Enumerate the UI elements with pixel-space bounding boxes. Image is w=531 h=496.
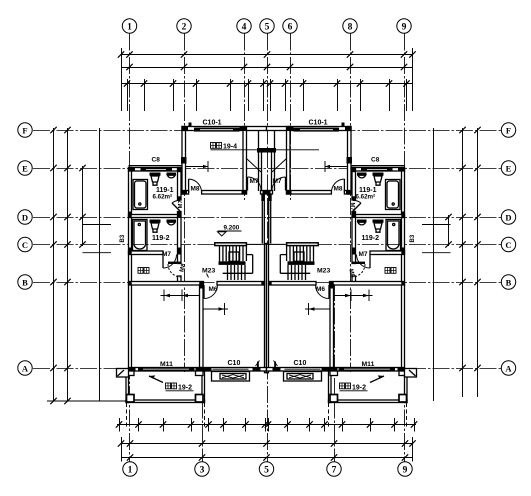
window C10 outer box <box>212 372 250 382</box>
pier corridor top jamb <box>261 194 264 201</box>
svg-text:C8: C8 <box>371 157 380 164</box>
interior dim center room <box>203 308 228 310</box>
wire B wall left segment <box>129 282 204 286</box>
svg-text:9: 9 <box>403 465 408 475</box>
wire bathroom right wall mid <box>178 212 182 264</box>
interior dim center room arrow <box>219 307 225 310</box>
toilet 1 <box>167 173 177 176</box>
bathtub 1 outer <box>133 180 148 210</box>
pier bath2 bottom left <box>129 248 132 255</box>
wire B wall right segment <box>217 282 267 286</box>
node 8 top <box>343 19 357 33</box>
bathtub 1 drain <box>139 203 141 205</box>
door M7 entry leaf <box>247 177 249 191</box>
window C10-1 black band <box>194 128 240 132</box>
sink 1 <box>150 173 161 176</box>
A-line step diagonal <box>118 370 125 376</box>
door M8 dressing leaf <box>168 262 181 264</box>
interior dim bedroom arrow <box>203 165 208 169</box>
pier bedroom top-right <box>240 127 247 131</box>
door bath1 leaf <box>172 203 180 211</box>
svg-text:C10-1: C10-1 <box>203 120 222 127</box>
top dim line 3 <box>121 83 413 85</box>
door M8 bedroom arc <box>189 179 202 193</box>
window C8 glazing line <box>146 168 166 170</box>
wire bottom exterior wall <box>129 368 267 372</box>
interior dim center room end <box>224 303 226 315</box>
bathtub 1 inner <box>135 181 147 208</box>
svg-text:F: F <box>506 125 511 135</box>
balcony post top-right nub <box>196 371 204 376</box>
node 2 top <box>177 19 191 33</box>
stair well right edge <box>252 255 254 274</box>
label balcony 19-2 right <box>340 375 385 391</box>
pier left wall at E <box>129 167 136 171</box>
svg-text:F: F <box>22 125 27 135</box>
pier party at entry wall <box>263 191 267 195</box>
svg-text:B: B <box>22 277 28 287</box>
svg-text:8: 8 <box>348 22 353 32</box>
dim tick slashes bottom <box>116 421 417 460</box>
wire bathroom right wall upper <box>178 168 182 201</box>
bottom dim line 2 <box>121 457 413 459</box>
leader diagonal to M7 <box>247 159 262 173</box>
node D right <box>501 210 515 224</box>
door bath1 jamb <box>177 196 181 200</box>
label balcony 19-4 <box>211 143 320 151</box>
svg-text:M8: M8 <box>334 186 343 193</box>
node 3 bottom <box>195 462 209 476</box>
wire bathroom divider wall <box>129 215 178 218</box>
svg-text:119-2: 119-2 <box>362 235 380 242</box>
dim tick slashes right <box>445 127 480 371</box>
sink 2 <box>150 220 161 223</box>
node A left <box>18 361 32 375</box>
wire bathroom top wall <box>129 168 183 172</box>
level underline <box>218 230 242 232</box>
vertical axis 4 <box>244 34 246 201</box>
door bath1 arc <box>172 200 180 203</box>
pier bottom left corner <box>129 367 136 371</box>
node 9 top <box>397 19 411 33</box>
dim tick slashes left <box>50 127 85 404</box>
door label M23 tickmark <box>207 274 209 278</box>
stair upper risers <box>220 246 244 262</box>
duct black bar <box>257 148 267 153</box>
door M7 bath2 arc <box>163 255 177 269</box>
right dim line inner <box>462 128 464 397</box>
balcony post bottom-left <box>127 395 135 403</box>
wire entry wall segment <box>261 191 267 195</box>
pier bath divider right <box>177 212 181 219</box>
svg-text:M7: M7 <box>359 251 368 258</box>
pier bottom right <box>253 367 261 371</box>
balcony to dim dashed drops <box>127 403 407 427</box>
window C8 black band <box>141 167 173 171</box>
wire corridor wall inner <box>263 194 265 244</box>
duct shaft wall <box>258 131 260 192</box>
svg-text:M7: M7 <box>178 200 184 208</box>
door M6 leaf <box>203 285 205 299</box>
node C left <box>18 237 32 251</box>
wire room divider wall <box>200 285 204 368</box>
svg-text:M7: M7 <box>349 203 355 211</box>
node C right <box>501 237 515 251</box>
interior dim big room arrows <box>164 294 188 297</box>
svg-text:D: D <box>505 212 511 222</box>
door M6 arc <box>204 285 218 299</box>
balcony bottom wall <box>126 400 205 403</box>
vertical axis 6 <box>290 34 292 201</box>
bottom dim short extension verticals <box>120 418 415 432</box>
label dressing right <box>385 268 396 274</box>
door M11 mid line <box>143 368 189 370</box>
interior dim big room <box>161 295 200 297</box>
top dim end extensions <box>121 48 123 111</box>
svg-text:M7: M7 <box>273 178 282 185</box>
node 5 bottom <box>259 462 273 476</box>
horizontal axis B <box>33 282 501 284</box>
interior dim bedroom end <box>207 161 209 172</box>
right dim line fine <box>448 215 450 246</box>
left extent line <box>99 128 101 401</box>
left dim line fine <box>82 166 84 246</box>
bottom dim line 1 <box>121 443 413 445</box>
interior dim big room mid end <box>181 290 183 302</box>
svg-text:B3: B3 <box>120 234 126 242</box>
svg-text:A: A <box>505 363 512 373</box>
duct shaft inner wall <box>261 148 263 191</box>
svg-text:M6: M6 <box>316 286 325 293</box>
stair well top edge <box>246 254 252 256</box>
svg-text:1: 1 <box>128 465 133 475</box>
pier bedroom bottom-left <box>182 191 187 195</box>
door M7 bath2 leaf <box>162 255 164 269</box>
svg-text:M7: M7 <box>162 251 171 258</box>
svg-text:4: 4 <box>242 22 247 32</box>
left outside dim stub D <box>83 224 112 226</box>
svg-text:C10: C10 <box>294 360 307 367</box>
stair lower risers <box>228 265 246 280</box>
wire bathroom right wall lower <box>178 276 182 282</box>
stair landing edge to center <box>246 243 266 245</box>
svg-text:6.62m²: 6.62m² <box>356 194 376 201</box>
node 9 bottom <box>398 462 412 476</box>
level triangle <box>218 232 227 236</box>
left dim line outer <box>53 128 55 401</box>
wire bedroom right wall <box>243 127 247 195</box>
wire lintel line above C8 <box>129 165 183 167</box>
label dressing left <box>138 268 149 274</box>
toilet 2 <box>167 220 177 223</box>
label balcony 19-2 left <box>149 375 194 391</box>
vertical axis 2 <box>184 34 186 373</box>
stair cut black band <box>219 261 246 265</box>
vertical axis 3 (bottom) <box>202 284 204 462</box>
window C10-1 glazing line <box>200 129 233 131</box>
svg-text:E: E <box>22 163 28 173</box>
dim tick slashes top <box>118 51 416 86</box>
svg-text:9.200: 9.200 <box>224 225 240 232</box>
svg-text:A: A <box>22 363 29 373</box>
svg-text:7: 7 <box>332 465 337 475</box>
svg-text:119-2: 119-2 <box>152 235 170 242</box>
bathtub 2 drain <box>138 223 140 225</box>
balcony right wall <box>202 371 205 403</box>
pier bottom mid <box>196 367 212 371</box>
stair landing bar <box>215 243 247 246</box>
pier bath divider left <box>129 212 132 219</box>
door M8 dressing arc <box>168 264 181 277</box>
svg-text:M23: M23 <box>202 268 215 275</box>
node 1 bottom <box>123 462 137 476</box>
node 5 top <box>260 19 274 33</box>
horizontal axis F <box>33 130 501 132</box>
wire bedroom bottom wall seg2 <box>202 191 247 195</box>
svg-text:2: 2 <box>182 22 187 32</box>
svg-text:C10: C10 <box>228 360 241 367</box>
node F right <box>501 123 515 137</box>
balcony post top-left nub <box>127 371 135 376</box>
svg-text:E: E <box>506 163 512 173</box>
horizontal axis E <box>33 168 501 170</box>
node E left <box>18 161 32 175</box>
node A right <box>501 361 515 375</box>
bathtub 2 outer <box>133 220 148 251</box>
bathtub 2 inner <box>134 221 146 249</box>
svg-text:C: C <box>22 240 28 250</box>
node E right <box>501 161 515 175</box>
pier B wall at divider <box>199 282 203 289</box>
svg-text:9: 9 <box>402 22 407 32</box>
pier bedroom top-left <box>182 127 188 131</box>
wire bedroom left wall <box>182 127 186 195</box>
mirrored right unit <box>267 123 451 403</box>
svg-text:B: B <box>506 277 512 287</box>
node B right <box>501 275 515 289</box>
svg-text:M8: M8 <box>191 186 200 193</box>
wire bedroom bottom wall seg1 <box>182 191 189 195</box>
left bottom extension <box>47 400 127 402</box>
svg-text:3: 3 <box>200 465 205 475</box>
left outside dim stub C <box>83 252 112 254</box>
node 4 top <box>237 19 251 33</box>
node 6 top <box>283 19 297 33</box>
horizontal axis D <box>33 217 501 219</box>
node B left <box>18 275 32 289</box>
vertical axis 5 <box>267 34 269 462</box>
vertical axis 8 <box>350 34 352 373</box>
left dim line inner <box>67 128 69 401</box>
wire bathroom2 bottom wall <box>129 251 164 255</box>
stair well corner <box>245 246 247 261</box>
bottom dim tick row <box>117 424 416 426</box>
node 1 top <box>122 19 136 33</box>
svg-text:B3: B3 <box>410 234 416 242</box>
horizontal axis A <box>33 368 501 370</box>
vertical axis 1 <box>129 34 131 462</box>
svg-text:C: C <box>505 240 511 250</box>
wire top exterior wall <box>182 127 267 131</box>
balcony post bottom-right <box>196 395 204 403</box>
window C10 lens hatch <box>222 375 244 379</box>
jamb mark above bottom wall <box>257 362 259 368</box>
svg-text:6.62m²: 6.62m² <box>153 194 173 201</box>
pier bath2 bottom right <box>177 248 181 255</box>
svg-text:D: D <box>22 212 28 222</box>
svg-text:5: 5 <box>265 22 270 32</box>
pier bedroom bottom-right <box>242 191 247 195</box>
wire left exterior wall <box>129 168 132 370</box>
bottom dim end extensions <box>121 437 123 462</box>
right dim line outer <box>477 128 479 397</box>
svg-text:M7: M7 <box>250 178 259 185</box>
stair break box <box>229 252 239 261</box>
balcony left wall <box>126 371 129 403</box>
svg-text:M11: M11 <box>362 361 375 368</box>
window C10 sill line <box>213 368 249 370</box>
vertical axis 9 <box>404 34 406 462</box>
pier B wall near center <box>261 281 264 285</box>
svg-text:6: 6 <box>288 22 293 32</box>
svg-text:C10-1: C10-1 <box>309 120 328 127</box>
interior dim big room left end <box>163 290 165 302</box>
svg-text:1: 1 <box>127 22 132 32</box>
vertical axis 7 (bottom) <box>334 284 336 462</box>
door M11 black band <box>138 368 195 371</box>
interior dim bedroom <box>186 166 209 168</box>
door M7 entry arc <box>248 177 262 191</box>
horizontal axis C <box>33 244 501 246</box>
pier bedroom wall blob <box>181 157 187 164</box>
svg-text:M11: M11 <box>160 361 173 368</box>
svg-text:M23: M23 <box>317 268 330 275</box>
window C10 inner box <box>220 374 246 380</box>
pier C10-1 left end <box>189 123 192 128</box>
svg-text:M6: M6 <box>209 286 218 293</box>
top dim line 1 <box>121 54 413 56</box>
node D left <box>18 210 32 224</box>
svg-text:C8: C8 <box>152 157 161 164</box>
top dim short extension verticals <box>128 79 407 111</box>
top dim line 2 <box>121 67 413 69</box>
A-line step at wall <box>117 369 129 378</box>
node 7 bottom <box>327 462 341 476</box>
door M8 bedroom leaf <box>188 179 190 193</box>
svg-text:5: 5 <box>264 465 269 475</box>
stair flight edge line <box>223 272 253 274</box>
node F left <box>18 123 32 137</box>
pier B wall left corner <box>129 282 132 286</box>
pier bath wall top <box>178 167 182 172</box>
wire party wall <box>265 244 267 373</box>
wire corridor wall outer <box>261 194 263 244</box>
